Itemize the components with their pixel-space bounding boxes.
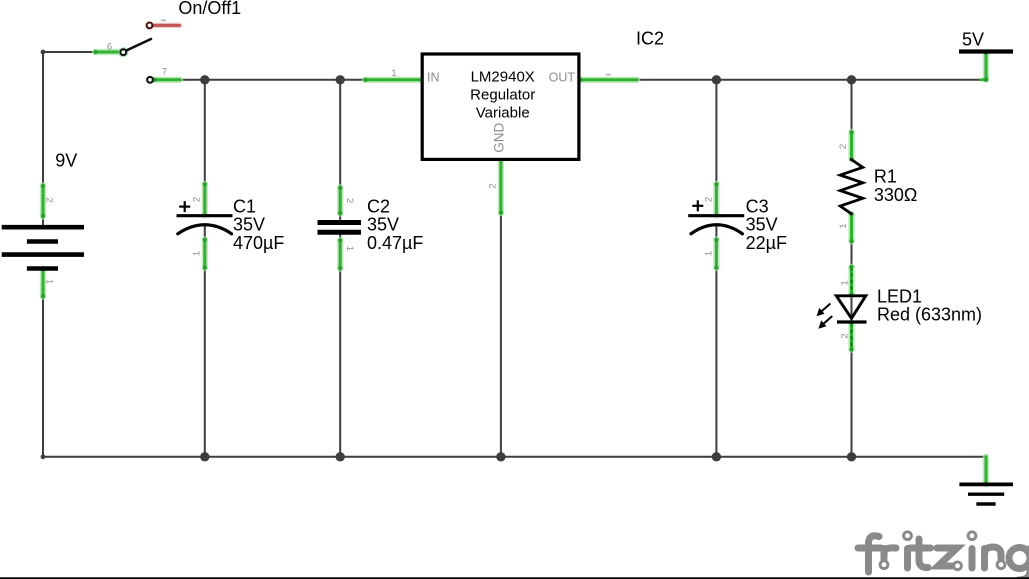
svg-text:2: 2 bbox=[344, 198, 355, 203]
svg-text:LM2940X: LM2940X bbox=[471, 69, 535, 86]
svg-text:9V: 9V bbox=[55, 150, 77, 170]
svg-text:6: 6 bbox=[107, 41, 112, 52]
svg-text:2: 2 bbox=[488, 183, 499, 188]
svg-text:LED1: LED1 bbox=[877, 286, 922, 306]
svg-text:1: 1 bbox=[704, 251, 715, 256]
svg-text:R1: R1 bbox=[874, 167, 897, 187]
svg-text:OUT: OUT bbox=[549, 71, 576, 85]
svg-text:1: 1 bbox=[840, 280, 851, 285]
svg-text:IC2: IC2 bbox=[636, 29, 664, 49]
svg-text:Regulator: Regulator bbox=[470, 87, 535, 104]
svg-text:2: 2 bbox=[191, 197, 202, 202]
svg-text:On/Off1: On/Off1 bbox=[178, 0, 241, 18]
svg-text:1: 1 bbox=[191, 251, 202, 256]
svg-text:Red (633nm): Red (633nm) bbox=[877, 305, 982, 325]
svg-text:470µF: 470µF bbox=[233, 233, 284, 253]
svg-text:Variable: Variable bbox=[476, 105, 530, 122]
svg-text:330Ω: 330Ω bbox=[874, 185, 918, 205]
svg-text:1: 1 bbox=[838, 223, 849, 228]
svg-text:C1: C1 bbox=[233, 197, 256, 217]
svg-text:2: 2 bbox=[838, 144, 849, 149]
svg-text:2: 2 bbox=[43, 197, 54, 202]
svg-text:22µF: 22µF bbox=[746, 233, 787, 253]
svg-text:2: 2 bbox=[840, 333, 851, 338]
svg-text:7: 7 bbox=[162, 66, 167, 77]
svg-text:IN: IN bbox=[427, 71, 440, 85]
svg-text:5V: 5V bbox=[962, 30, 984, 50]
svg-text:GND: GND bbox=[491, 122, 506, 152]
svg-text:1: 1 bbox=[344, 246, 355, 251]
svg-text:2: 2 bbox=[704, 197, 715, 202]
svg-text:35V: 35V bbox=[233, 215, 265, 235]
svg-text:C2: C2 bbox=[367, 197, 390, 217]
svg-text:35V: 35V bbox=[367, 215, 399, 235]
svg-text:1: 1 bbox=[43, 279, 54, 284]
svg-text:35V: 35V bbox=[746, 215, 778, 235]
svg-text:C3: C3 bbox=[746, 197, 769, 217]
svg-text:0.47µF: 0.47µF bbox=[367, 233, 423, 253]
svg-text:1: 1 bbox=[391, 68, 396, 79]
